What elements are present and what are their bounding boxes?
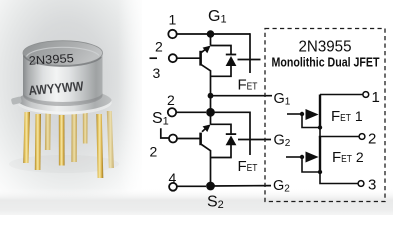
FET1 gate wire	[287, 113, 302, 115]
svg-text:1: 1	[169, 12, 177, 28]
svg-text:G1: G1	[274, 91, 291, 108]
transistor Q2 gate bar	[199, 133, 202, 146]
diode D2 bottom wire	[211, 145, 232, 158]
bottom gray band	[0, 188, 393, 215]
svg-text:FET: FET	[238, 77, 258, 94]
FET1 gate arrow	[306, 109, 319, 120]
lead 1	[23, 112, 30, 163]
index tab	[11, 96, 22, 105]
FET2 gate arrow	[306, 152, 319, 163]
diode D2	[226, 133, 237, 145]
FET2 source stub and wire to terminal 3	[320, 172, 358, 184]
svg-text:2: 2	[167, 92, 175, 108]
wire: S2 lead	[177, 185, 206, 187]
L elbow wire to lower gate terminal	[161, 128, 169, 138]
wire: corner to diode D1 top	[211, 46, 232, 55]
FET2 gate loop to source	[302, 157, 320, 172]
wire: node A to box G1	[211, 95, 273, 97]
svg-text:3: 3	[368, 177, 376, 194]
wire: top crossbar to box	[238, 59, 261, 61]
transistor leads (gold pins)	[23, 110, 114, 178]
junction dot FET1 source	[318, 125, 322, 129]
svg-text:G1: G1	[208, 8, 227, 26]
lead 5	[71, 111, 77, 162]
node G1 top rail wire	[177, 33, 250, 35]
wire: corner to diode D2 top	[211, 124, 232, 133]
lead 8	[107, 111, 114, 168]
svg-text:2N3955: 2N3955	[299, 39, 352, 56]
FET1 channel bar	[319, 95, 321, 129]
arrow on Q2 drain	[203, 124, 211, 132]
svg-text:FET 1: FET 1	[331, 108, 363, 125]
svg-text:4: 4	[169, 170, 177, 186]
FET1 source stub down	[319, 128, 321, 137]
can/flange junction shadow	[23, 93, 103, 107]
terminal 3 (box)	[358, 181, 364, 187]
junction dot node A	[208, 93, 214, 99]
junction dot S2 node	[206, 182, 215, 191]
svg-text:G2: G2	[274, 133, 291, 150]
wire: gate lead to Q1	[177, 57, 199, 59]
transistor Q1 gate bar	[199, 51, 202, 66]
terminal 2 (box)	[359, 134, 365, 140]
FET1 drain wire to terminal 1	[320, 94, 363, 96]
terminal 1 (box)	[363, 92, 369, 98]
lead 6	[83, 110, 88, 144]
terminal pin 4	[169, 183, 177, 191]
junction dot FET2 source	[318, 170, 322, 174]
lead 3	[45, 111, 51, 150]
svg-text:FET: FET	[238, 158, 258, 175]
arrow on Q1 drain	[203, 46, 211, 54]
transistor Q1 drain diagonal	[202, 47, 209, 53]
junction dot FET1 gate	[300, 112, 304, 116]
svg-text:2: 2	[368, 131, 376, 148]
svg-text:2N3955: 2N3955	[28, 51, 74, 68]
FET2 channel bar	[319, 137, 321, 173]
can top surface	[23, 41, 103, 66]
transistor Q2 drain diagonal	[202, 126, 209, 132]
terminal S1	[168, 108, 176, 116]
svg-text:S1: S1	[152, 110, 169, 128]
diode D1 bottom wire	[211, 66, 232, 76]
terminal 2 wire	[319, 136, 359, 138]
junction dot S1 node	[206, 108, 215, 117]
FET1 gate loop to source	[302, 114, 320, 128]
transistor Q2 source diagonal	[202, 145, 211, 187]
wire: S1 lead	[176, 111, 206, 113]
wire: drain stub from S1 node down	[210, 112, 212, 124]
diode D1	[226, 54, 237, 66]
lead 7	[96, 114, 103, 178]
svg-text:3: 3	[153, 65, 161, 81]
metal can body	[23, 53, 103, 105]
wire: top rail right pipe	[249, 33, 251, 73]
transistor Q1 source diagonal	[202, 65, 211, 112]
svg-text:G2: G2	[273, 178, 290, 195]
terminal lower gate	[169, 135, 177, 143]
svg-text:2: 2	[155, 39, 163, 55]
FET2 gate wire	[286, 156, 302, 158]
junction dot G1	[207, 30, 215, 38]
lead 4	[59, 115, 65, 166]
terminal pin 1	[168, 30, 176, 38]
svg-text:FET 2: FET 2	[332, 149, 364, 166]
lead shadow	[9, 155, 119, 173]
wire: bottom rail to box G2	[211, 185, 272, 187]
photo background	[0, 0, 142, 200]
svg-text:Monolithic Dual JFET: Monolithic Dual JFET	[272, 55, 380, 70]
package flange (header)	[17, 89, 112, 115]
junction dot FET2 gate	[300, 155, 304, 159]
wire: bottom crossbar to box G2	[238, 139, 271, 141]
svg-text:1: 1	[372, 89, 380, 106]
terminal pins 2,3	[169, 54, 177, 62]
wire: middle rail to right pipe	[211, 112, 251, 155]
wire: gate stub pins 2,3	[150, 57, 158, 59]
svg-text:2: 2	[150, 144, 158, 160]
dashed enclosure	[265, 29, 385, 202]
wire: gate lead to Q2	[177, 138, 199, 140]
wire: drain stub from G1 dot down	[210, 34, 212, 46]
lead 2	[35, 114, 41, 170]
